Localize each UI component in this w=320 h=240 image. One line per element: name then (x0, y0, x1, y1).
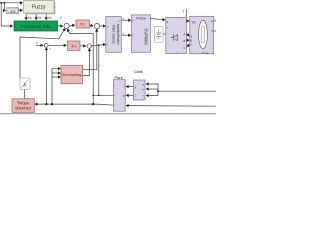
svg-text:T̹: T̹ (182, 10, 185, 14)
svg-text:i̕*: i̕* (60, 15, 63, 20)
svg-text:-i̖: -i̖ (49, 46, 51, 50)
svg-text:Fuzzy: Fuzzy (32, 4, 46, 10)
svg-text:PI: PI (72, 44, 76, 49)
svg-text:v: v (123, 17, 125, 20)
svg-text:A: A (183, 32, 185, 36)
svg-text:Fractional PID: Fractional PID (21, 24, 51, 29)
svg-text:B: B (183, 39, 185, 43)
svg-text:Tm: Tm (192, 20, 197, 24)
svg-text:d/dt: d/dt (10, 9, 16, 13)
svg-text:v: v (123, 32, 125, 35)
svg-text:-i̕: -i̕ (71, 29, 74, 34)
svg-text:ī*: ī* (36, 41, 39, 45)
svg-text:observer: observer (15, 105, 32, 110)
svg-text:Decoupling: Decoupling (61, 72, 81, 77)
svg-text:C: C (191, 43, 193, 46)
svg-text:Δkₚ: Δkₚ (28, 16, 33, 20)
svg-text:Δkᵢ: Δkᵢ (38, 16, 42, 20)
svg-text:C: C (183, 46, 185, 50)
svg-text:iₐ iᵢ iₘ: iₐ iᵢ iₘ (203, 51, 209, 54)
svg-text:-: - (167, 48, 168, 52)
svg-text:Park: Park (115, 75, 123, 80)
svg-text:SVPWM: SVPWM (144, 28, 149, 45)
svg-text:Δkₒ: Δkₒ (48, 16, 52, 20)
svg-text:ω: ω (211, 19, 213, 23)
svg-text:Clark: Clark (134, 69, 143, 74)
svg-text:Park inverse: Park inverse (112, 25, 116, 43)
svg-text:PI: PI (80, 22, 84, 27)
svg-text:+: + (166, 26, 168, 30)
svg-text:Pulse: Pulse (136, 16, 147, 21)
